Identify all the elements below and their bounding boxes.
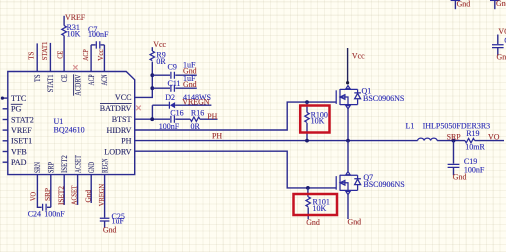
- svg-text:GND: GND: [87, 162, 96, 173]
- pin VREF stub: [3, 129, 8, 131]
- svg-text:L1: L1: [406, 122, 415, 131]
- svg-text:100nF: 100nF: [88, 30, 109, 39]
- svg-text:100nF: 100nF: [464, 165, 485, 174]
- wire PH to Q7 drain: [347, 141, 349, 172]
- svg-text:Gnd: Gnd: [497, 53, 506, 62]
- svg-text:ACP: ACP: [87, 74, 96, 85]
- wire TS net: [36, 43, 38, 71]
- svg-text:STAT1: STAT1: [40, 41, 49, 60]
- svg-text:1uF: 1uF: [112, 217, 125, 226]
- pin ISET1 stub: [3, 140, 8, 142]
- no-connect x on BATDRV pin: [136, 106, 141, 111]
- svg-text:PH: PH: [212, 132, 222, 141]
- svg-text:TS: TS: [27, 52, 36, 60]
- junction at C9 tap: [150, 73, 154, 77]
- svg-text:ACN: ACN: [100, 74, 109, 85]
- highlight box around R100: [300, 106, 329, 133]
- pin name BATDRV (overline): [100, 104, 132, 113]
- junction at C11 tap: [150, 86, 154, 90]
- svg-text:ISET2: ISET2: [60, 155, 69, 173]
- wire SRP net: [50, 175, 52, 208]
- svg-text:ISET2: ISET2: [56, 186, 65, 205]
- svg-text:Vcc: Vcc: [352, 51, 365, 60]
- wire SRN net (VO): [37, 175, 41, 208]
- wire L1 to R19: [437, 140, 465, 142]
- svg-text:SRN: SRN: [33, 162, 42, 173]
- svg-text:ACSET: ACSET: [73, 155, 82, 173]
- no-connect x on ACDRV pin: [73, 65, 77, 69]
- svg-text:D2: D2: [165, 93, 175, 102]
- svg-text:STAT1: STAT1: [46, 75, 55, 93]
- junction C19 tap: [452, 139, 456, 143]
- resistor R19: [465, 129, 504, 151]
- capacitor right edge clipped: [492, 35, 506, 56]
- wire STAT1 net: [49, 43, 51, 72]
- svg-text:VREGN: VREGN: [97, 183, 106, 206]
- svg-text:PG: PG: [11, 105, 22, 114]
- svg-text:ACDRV: ACDRV: [73, 74, 82, 95]
- svg-text:SRP: SRP: [447, 133, 462, 142]
- svg-text:10mR: 10mR: [465, 142, 485, 151]
- wire Vcc trunk to VCC pin: [135, 62, 153, 98]
- svg-text:CE: CE: [55, 50, 64, 59]
- resistor R31: [62, 23, 81, 38]
- svg-text:Gnd: Gnd: [103, 226, 117, 235]
- svg-text:Gnd: Gnd: [457, 0, 471, 9]
- wire ACN / Vcc net: [103, 45, 105, 72]
- wire LODRV to Q7 gate: [135, 151, 337, 188]
- junction BTST/D2: [150, 117, 154, 121]
- capacitor C25: [100, 212, 125, 228]
- capacitor C11: [152, 74, 197, 92]
- svg-text:BQ24610: BQ24610: [54, 126, 85, 135]
- junction LODRV/R101: [306, 186, 310, 190]
- svg-text:Gnd: Gnd: [183, 80, 197, 89]
- svg-text:TTC: TTC: [11, 94, 26, 103]
- highlight box around R101: [294, 194, 338, 215]
- svg-text:C9: C9: [168, 63, 177, 72]
- svg-text:ACSET: ACSET: [70, 185, 79, 205]
- junction Q1 source/PH: [346, 139, 350, 143]
- power port VREF: [64, 13, 86, 26]
- svg-text:IHLP5050FDER3R3: IHLP5050FDER3R3: [423, 122, 491, 131]
- op-amp U1 BQ24610 IC body: [8, 72, 135, 175]
- svg-text:VREF: VREF: [65, 13, 86, 22]
- svg-text:VFB: VFB: [11, 147, 27, 156]
- capacitor C19: [448, 141, 485, 176]
- svg-text:0R: 0R: [156, 57, 166, 66]
- resistor R16: [190, 109, 217, 132]
- capacitor C16: [159, 109, 191, 132]
- pin PG stub: [3, 108, 8, 110]
- svg-text:VO: VO: [488, 133, 500, 142]
- power port Vcc (Q1 drain): [346, 48, 365, 84]
- resistor R101: [306, 188, 330, 219]
- wire HIDRV to Q1 gate: [135, 102, 337, 130]
- pin TTC stub: [1, 97, 8, 100]
- wire REGN net: [104, 175, 106, 218]
- pin PAD stub: [3, 161, 8, 163]
- wire top clipped cap 2: [490, 0, 500, 9]
- wire ISET2 net: [63, 175, 65, 205]
- capacitor C9: [152, 61, 197, 79]
- svg-text:R19: R19: [466, 129, 479, 138]
- wire ACSET net: [77, 175, 79, 205]
- pin name ACDRV (top, vertical, overline): [73, 74, 82, 95]
- svg-text:VO: VO: [498, 27, 506, 36]
- diode D2 4148WS: [152, 93, 211, 109]
- svg-text:U1: U1: [54, 117, 64, 126]
- svg-text:BATDRV: BATDRV: [100, 104, 132, 113]
- wire PH row: [135, 140, 418, 142]
- svg-text:ISET1: ISET1: [11, 137, 32, 146]
- wire Q7 source to Gnd: [347, 195, 349, 219]
- svg-text:REGN: REGN: [100, 159, 109, 173]
- svg-text:LODRV: LODRV: [104, 147, 131, 156]
- svg-text:BSC0906NS: BSC0906NS: [363, 180, 404, 189]
- junction HIDRV/R100: [305, 100, 309, 104]
- svg-text:PH: PH: [121, 137, 132, 146]
- svg-text:10K: 10K: [313, 204, 327, 213]
- pin name PG (overline): [11, 104, 23, 113]
- svg-text:PAD: PAD: [11, 158, 27, 167]
- svg-text:Gnd: Gnd: [348, 218, 362, 227]
- svg-text:100nF: 100nF: [44, 209, 65, 218]
- junction R100/PH: [305, 139, 309, 143]
- svg-text:SRP: SRP: [47, 162, 56, 173]
- svg-text:BSC0906NS: BSC0906NS: [363, 94, 404, 103]
- svg-text:R16: R16: [191, 109, 204, 118]
- transistor Q7 BSC0906NS: [336, 172, 405, 195]
- svg-text:Gnd: Gnd: [453, 172, 467, 181]
- svg-text:C11: C11: [168, 79, 181, 88]
- capacitor C24: [28, 204, 65, 219]
- svg-text:10K: 10K: [67, 29, 81, 38]
- svg-text:VREGN: VREGN: [182, 97, 209, 106]
- wire top clipped cap 1: [451, 0, 461, 9]
- svg-text:Vcc: Vcc: [96, 48, 105, 60]
- svg-text:10K: 10K: [311, 117, 325, 126]
- svg-text:PH: PH: [207, 112, 217, 121]
- pin STAT2 stub: [3, 119, 8, 121]
- resistor R100: [305, 102, 328, 141]
- wire BTST row: [135, 118, 170, 120]
- svg-text:Gnd: Gnd: [496, 0, 506, 8]
- wire CE net: [63, 36, 65, 72]
- wire GND net: [90, 175, 92, 203]
- svg-text:BTST: BTST: [112, 115, 132, 124]
- svg-text:Gnd: Gnd: [306, 218, 320, 227]
- inductor L1 IHLP5050FDER3R3: [406, 122, 491, 141]
- svg-text:TS: TS: [33, 75, 42, 83]
- resistor R9: [150, 51, 166, 66]
- wire D2 branch vertical: [151, 105, 153, 119]
- wire ACP net: [90, 45, 92, 72]
- wire Q1 source to PH row: [347, 109, 349, 141]
- svg-text:HIDRV: HIDRV: [107, 126, 132, 135]
- svg-text:C24: C24: [28, 209, 41, 218]
- svg-text:STAT2: STAT2: [11, 115, 34, 124]
- pin VFB stub: [3, 151, 8, 153]
- capacitor C7: [88, 25, 109, 48]
- power port Vcc (R9): [152, 40, 166, 51]
- svg-text:SRP: SRP: [43, 188, 52, 201]
- svg-text:CE: CE: [60, 74, 69, 82]
- svg-text:Vcc: Vcc: [153, 40, 166, 49]
- svg-text:ACP: ACP: [81, 49, 90, 61]
- svg-text:Gnd: Gnd: [83, 190, 92, 203]
- svg-text:VCC: VCC: [115, 93, 132, 102]
- transistor Q1 BSC0906NS: [336, 86, 404, 109]
- svg-text:VREF: VREF: [11, 126, 32, 135]
- svg-text:VO: VO: [29, 192, 38, 201]
- svg-text:C16: C16: [170, 109, 183, 118]
